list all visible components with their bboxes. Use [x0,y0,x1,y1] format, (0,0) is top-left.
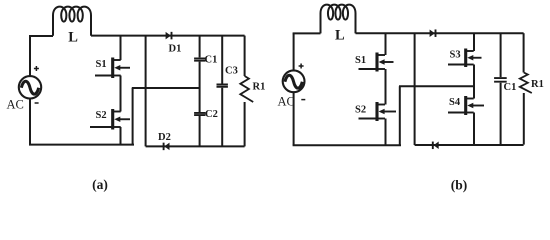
transistor S1 (b) [359,53,394,72]
wire: left rail lower (b) [293,92,295,145]
resistor R1 (b) [520,73,532,94]
wire: mid bus (b) [399,85,474,87]
wire: S3 source to S4 drain (b) [473,65,475,99]
wire: left rail lower (a) [29,99,31,145]
svg-text:S3: S3 [450,50,461,61]
wire: mid-node vertical (b) [399,86,401,145]
wire: bottom-left bus (a) [29,144,134,146]
wire: top bus (b) [356,32,524,34]
wire: S3 drain riser (b) [473,33,475,51]
svg-text:AC: AC [7,98,24,112]
polarity - (a) [35,102,39,104]
svg-text:L: L [68,30,78,46]
transistor S1 (a) [95,58,130,79]
polarity + (a) [34,66,39,71]
resistor R1 (a) [240,76,253,102]
inductor L (b) [321,5,356,34]
wire: R1 rail bottom (b) [523,93,525,145]
wire: left rail upper (b) [293,33,295,70]
svg-text:R1: R1 [531,79,544,90]
svg-text:S4: S4 [449,97,461,108]
wire: S2 source drop (b) [385,119,387,146]
wire: S1 source to S2 drain (b) [385,69,387,105]
wire: S1 drain riser (a) [120,36,122,60]
diode top (b) [430,29,435,37]
transistor S2 (b) [359,102,397,121]
wire: R1 rail top (b) [523,33,525,72]
wire: middle rail (b) [414,33,416,145]
AC source (b) [283,70,305,92]
svg-text:S1: S1 [96,59,107,70]
transistor S3 (b) [448,49,482,68]
capacitor C3 (a) [217,85,228,87]
capacitor C1 (b) [494,78,507,82]
AC source (a) [19,76,41,98]
svg-text:L: L [335,27,345,43]
wire: top feed rail to D2 (a) [145,36,147,147]
svg-text:C2: C2 [205,109,218,120]
capacitor C2 (a) [194,113,205,115]
inductor L (a) [53,7,91,36]
wire: R1 rail bottom (a) [244,102,246,146]
wire: R1 rail top (a) [244,36,246,76]
svg-text:(b): (b) [451,178,468,193]
polarity + (b) [299,64,304,69]
svg-text:C3: C3 [225,65,238,76]
wire: bottom-left bus (b) [293,144,401,146]
wire: bottom-right bus (a) [146,145,245,147]
svg-text:C1: C1 [504,82,517,93]
capacitor C1 (a) [194,58,205,60]
wire: left rail upper (a) [29,36,31,76]
wire: C1 rail (b) [500,33,502,144]
wire: S1 source to S2 drain (a) [120,76,122,112]
wire: S2 source drop (a) [120,127,122,145]
svg-text:S1: S1 [355,55,366,66]
wire: C1 C2 rail (a) [199,36,201,147]
svg-text:S2: S2 [96,110,107,121]
wire: top bus (a) [91,35,245,37]
wire: bottom-right bus (b) [415,144,524,146]
svg-text:D2: D2 [158,132,171,143]
svg-text:C1: C1 [205,54,218,65]
wire: S4 source drop (b) [473,113,475,146]
transistor S2 (a) [90,109,130,130]
wire: S1 drain riser (b) [385,33,387,55]
wire: top bus left seg (a) [29,35,53,37]
wire: mid-node vertical (a) [132,88,134,145]
polarity - (b) [301,99,305,101]
svg-text:(a): (a) [92,177,108,192]
wire: mid bus to C1C2 junction (a) [132,87,200,89]
diode D2 (a) [163,143,165,151]
transistor S4 (b) [448,96,484,115]
diode bottom (b) [432,142,434,150]
svg-text:R1: R1 [253,82,266,93]
diode D1 (a) [166,32,171,39]
wire: top bus left seg (b) [293,32,321,34]
svg-text:AC: AC [278,95,295,109]
svg-text:D1: D1 [169,44,182,55]
svg-text:S2: S2 [355,104,366,115]
wire: C3 rail (a) [221,36,223,147]
